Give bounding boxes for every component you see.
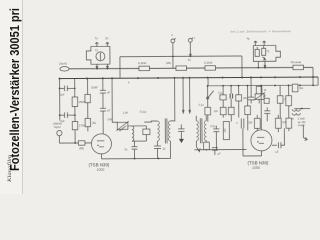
node M leads [172,55,191,57]
svg-text:µF: µF [107,91,110,94]
svg-text:(PR): (PR) [79,147,84,150]
svg-text:(1M): (1M) [107,118,112,121]
resistor R20 [292,84,304,92]
resistor R6 [204,141,210,150]
wire V1 cathode down [100,154,102,159]
tube V1 [91,134,111,154]
wire anode column v4 [102,78,104,90]
node PH2 leads [257,67,266,69]
svg-text:0,5µ: 0,5µ [210,125,215,128]
resistor R9 vertical [199,104,211,122]
capacitor C2b [100,90,111,108]
svg-text:Drossel: Drossel [291,60,302,64]
svg-text:(3mA): (3mA) [59,62,67,66]
wire bus0 left drop [119,57,121,78]
svg-text:11kW: 11kW [91,85,98,89]
potentiometer P2 [254,92,266,103]
wire v3 middle [87,103,89,119]
svg-text:(TSB N39): (TSB N39) [89,162,110,167]
svg-text:1050: 1050 [252,166,260,170]
ground chassis [179,131,184,143]
resistor R18 [277,85,289,118]
node dots sub-bus [207,84,314,86]
capacitor C5 [154,146,166,159]
svg-text:1,5H: 1,5H [123,112,128,115]
photocell PH2 contact a [255,47,259,57]
photocell PH1 [95,49,105,61]
node v2 input line [74,142,76,144]
capacitor C9 [248,77,254,103]
svg-text:(2k): (2k) [166,61,171,65]
wire left column v3 [87,78,89,94]
capacitor C3 [140,111,150,142]
terminal a2 [254,41,257,46]
svg-text:0,1µ: 0,1µ [218,91,223,94]
transformer TR1 [157,118,170,143]
resistor R19 [286,85,292,108]
resistor R13 inline [204,60,216,70]
bus1 heater line [60,67,313,69]
svg-text:µF: µF [217,153,220,156]
tube V2 [251,130,272,151]
svg-text:µF: µF [275,151,278,154]
terminal M2 [188,37,196,62]
wire TR1 sec bottom [169,141,171,158]
resistor R14 inline [291,60,304,70]
resistor R2b [85,85,98,102]
wire v 242.5 [242,128,244,155]
capacitor C7 [210,125,219,150]
wire TR2 sec top [205,116,207,121]
node dots stage2 bottom [206,149,218,151]
node v1 rails [59,87,61,116]
resistor R10 vertical [214,107,226,117]
resistor R2 [72,97,86,107]
wire V2 anode up [260,86,262,130]
wire PH1 cathode lead [96,64,98,69]
wire bus1 right drop [312,67,314,77]
wire bus2 to sub-bus [207,78,209,86]
bus2 main supply line [60,77,318,79]
photocell PH2 contact b [262,46,270,56]
svg-text:0,1kW: 0,1kW [138,61,147,65]
svg-text:100: 100 [224,128,227,133]
resistor R4 inline [78,141,85,151]
svg-text:(2k): (2k) [243,97,247,100]
resistor R12 inline [166,61,187,71]
resistor R16 tall [223,122,229,140]
wire output down [302,125,304,138]
wire bus0 right drop [241,56,243,77]
wire cathode line [102,157,171,159]
svg-text:1000: 1000 [97,168,105,172]
wire input line [59,142,92,144]
inductor L1 [123,112,134,142]
capacitor C10 box [263,95,269,104]
wire bus2 right drop [317,77,319,85]
wire V2 cathode line [243,155,261,157]
wire TR1 primary top [144,121,157,122]
fuse Si1 [59,62,69,71]
wire out top [294,107,310,109]
resistor R7b [228,107,234,121]
wire PH2 leads down [258,61,266,67]
wire V1 grid right [112,78,118,122]
capacitor C13 [272,128,285,154]
wire v2 bottom [74,130,76,143]
capacitor C2c [100,108,111,134]
switch S1 [206,86,213,108]
resistor R15 vertical [245,86,251,131]
bottom line stage2 [194,148,246,150]
wire TR1 sec top [170,78,175,121]
resistor R21 [248,115,260,131]
svg-text:µF: µF [107,109,110,112]
svg-text:(max): (max) [298,123,305,127]
svg-text:0,1µ: 0,1µ [199,104,204,107]
resistor R17 [256,86,267,94]
photocell PH1 socket [86,46,110,64]
node v2 rails [74,87,76,115]
node PH1 leads [96,68,108,70]
wire left column v2 [74,79,76,97]
node dots bus2 [59,76,315,80]
capacitor C6b [230,86,233,108]
capacitor C4 [124,147,137,159]
terminal a1 [95,36,99,46]
input terminal Rphz [53,122,62,144]
capacitor C11 [264,107,270,121]
wire left column v1 [59,79,61,121]
resistor R8 [236,86,248,118]
resistor R3 [72,121,86,129]
node cathode [134,158,160,160]
capacitor C6 box [218,86,226,108]
resistor R23 [286,109,292,132]
wire TR1 primary bottom [156,141,158,146]
photocell PH2 socket [253,45,280,61]
svg-text:(TSB N38): (TSB N38) [248,160,269,165]
capacitor C5b [178,124,184,131]
terminal k1 [105,36,109,46]
wire LC bottom [132,140,146,142]
wire B+ arrow 2 [189,78,191,113]
svg-text:2µF: 2µF [60,94,65,97]
svg-text:Rphz: Rphz [54,125,61,129]
wire PH1 anode lead [106,64,108,69]
svg-text:bei 2 pol. Zellenanschl. = Kle: bei 2 pol. Zellenanschl. = Klemmleiste [231,29,291,33]
svg-text:Fotozellen-Verstärker 30051 pr: Fotozellen-Verstärker 30051 pri [8,8,22,171]
wire TR2 primary top [195,116,197,121]
resistor R11 inline [138,61,150,71]
terminal M1 [171,33,176,68]
svg-text:(0,1µ): (0,1µ) [140,111,147,114]
wire v2 middle [74,107,76,122]
svg-text:µF: µF [263,95,266,98]
capacitor C1 [60,86,75,97]
divider line [22,0,24,194]
wire v3 bottom [87,127,89,132]
sub-bus B+ right [208,84,318,87]
capacitor C8 [212,148,221,156]
capacitor C2 [60,112,75,123]
terminal k2 [247,37,266,45]
potentiometer P1 [107,118,129,131]
svg-text:(3k): (3k) [92,122,96,125]
svg-text:0,1kW: 0,1kW [204,60,213,64]
resistor R22 [275,115,287,133]
wire LC top [128,125,146,127]
transformer TR2 [196,118,206,143]
resistor R3b [85,118,96,126]
wire V2 cathode down [260,151,262,156]
node out [301,108,303,110]
capacitor C12 bars [236,118,244,128]
wire TR2 primary bottom arrow [196,141,200,152]
wire B+ arrow 1 [182,78,184,113]
inductor L2 [291,109,300,121]
bus0 photocell line [120,55,242,58]
photocell PH2 arrow [262,57,265,60]
output arrow [303,137,307,140]
